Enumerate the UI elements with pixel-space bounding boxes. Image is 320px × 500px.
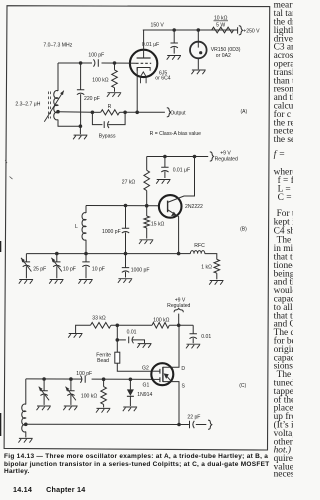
wire R to node xyxy=(120,111,126,113)
wire tank to G1 xyxy=(26,378,153,381)
svg-text:G2: G2 xyxy=(142,365,149,371)
svg-text:or 0A2: or 0A2 xyxy=(216,53,231,59)
ground below 25pF xyxy=(19,280,33,284)
wire to 1N914 xyxy=(129,379,131,389)
svg-text:15 kΩ: 15 kΩ xyxy=(151,222,165,228)
wire 27k to base node xyxy=(146,191,148,206)
node rail/VR tube junction xyxy=(197,28,201,32)
node trimmer1 C xyxy=(42,377,46,381)
node coil bottom xyxy=(84,252,88,256)
wire +9V terminal C xyxy=(178,314,180,326)
MOSFET arrow tail xyxy=(167,377,171,381)
svg-text:S: S xyxy=(182,384,186,390)
wire bottom rail to 1000pF-2 xyxy=(125,254,127,268)
MOSFET substrate arrow xyxy=(164,373,169,379)
stray pen marks xyxy=(5,160,12,179)
ground 100k lower C xyxy=(96,408,110,412)
svg-text:100 kΩ: 100 kΩ xyxy=(153,317,169,323)
node R right xyxy=(123,111,127,115)
node trimmer2 C xyxy=(69,377,73,381)
wire base rail to coil L xyxy=(85,206,87,214)
ground coil C xyxy=(18,438,32,442)
svg-text:(B): (B) xyxy=(240,227,247,233)
capacitor 0.01uF plate bypass xyxy=(171,43,178,48)
wire base rail to 1000pF-1 xyxy=(125,206,127,229)
wire coil L to bottom rail xyxy=(85,240,87,254)
ground 1N914 xyxy=(123,407,137,411)
ground below 10pF trimmer xyxy=(49,280,63,284)
capacitor 100pF grid xyxy=(94,59,99,66)
wire 0.01 to ground B xyxy=(164,172,166,179)
ferrite bead xyxy=(115,352,120,363)
wire 0.01 left to ground xyxy=(132,340,145,343)
ground below 10pF fixed xyxy=(78,280,92,284)
connector brace output C xyxy=(208,420,212,429)
wire 100pF to tube grid xyxy=(102,62,137,64)
wire bypass loop left xyxy=(92,112,102,124)
svg-text:Regulated: Regulated xyxy=(167,303,190,309)
node 1N914 C xyxy=(129,378,133,382)
wire G1 line down to coil C xyxy=(25,379,27,405)
diode 1N914 triangle xyxy=(127,389,134,396)
node rail/collector B xyxy=(193,155,197,159)
wire to 0.01 left C xyxy=(117,339,126,341)
node emitter junction xyxy=(177,252,181,256)
wire 1000pF-2 to ground xyxy=(125,272,127,278)
ground below 0.01 B xyxy=(156,180,170,184)
wire tube plate lead xyxy=(143,30,145,58)
node 1000pF junction xyxy=(124,252,128,256)
capacitor 10pF fixed xyxy=(82,262,89,267)
capacitor 100pF C xyxy=(80,375,85,382)
svg-text:7.0–7.3 MHz: 7.0–7.3 MHz xyxy=(43,43,72,49)
capacitor 220pF tank xyxy=(77,90,84,95)
wire 0.01 right to ground xyxy=(192,338,194,343)
wire G2 into gate xyxy=(152,370,160,372)
svg-text:or 6C4: or 6C4 xyxy=(155,75,170,81)
capacitor 22pF output xyxy=(190,421,195,428)
wire bypass loop right xyxy=(108,112,125,124)
inductor tank C tapped xyxy=(22,404,26,432)
svg-text:25 pF: 25 pF xyxy=(33,267,46,273)
arrow 25pF variable xyxy=(21,258,31,272)
wire to 100k lower C xyxy=(103,379,105,386)
resistor 100k C top xyxy=(152,323,169,329)
svg-text:(C): (C) xyxy=(239,383,246,389)
svg-text:the series: the series xyxy=(274,135,293,145)
wire to R xyxy=(92,111,100,113)
capacitor 25pF variable xyxy=(23,262,30,267)
diode 1N914 bar xyxy=(127,395,134,397)
wire 100k to ground xyxy=(114,88,116,92)
wire 1k to ground xyxy=(216,273,218,279)
ground below 100k xyxy=(107,93,121,97)
node coil tap xyxy=(56,110,60,114)
ground below 15k xyxy=(139,240,153,244)
wire 22pF to output brace xyxy=(196,424,207,426)
terminal tick +250V xyxy=(237,27,239,34)
wire collector to rail xyxy=(168,157,195,203)
wire ground to 33k xyxy=(76,325,91,333)
svg-text:2.3–2.7 μH: 2.3–2.7 μH xyxy=(15,102,40,108)
node coil tap C xyxy=(24,423,28,427)
wire 100k to cap corner xyxy=(169,324,193,326)
svg-text:f =: f = xyxy=(274,149,286,160)
arrow 10pF trimmer xyxy=(51,258,61,272)
wire to 25pF xyxy=(25,254,27,262)
svg-text:10 kΩ: 10 kΩ xyxy=(214,15,228,21)
node grid wire / 100k xyxy=(113,61,117,65)
wire tank top to 100pF xyxy=(58,62,92,64)
svg-text:hot.): hot.) xyxy=(274,445,291,456)
svg-text:(A): (A) xyxy=(240,109,247,115)
svg-text:100 pF: 100 pF xyxy=(76,371,92,377)
tube grid dashed xyxy=(136,62,151,64)
svg-text:0.01 μF: 0.01 μF xyxy=(173,167,190,173)
ground 0.01 left C xyxy=(137,344,151,348)
wire 220pF to bottom rail xyxy=(80,94,82,126)
tube 6J5 envelope xyxy=(130,50,157,77)
transistor emitter arrow xyxy=(171,212,177,217)
wire to trimmer1 C xyxy=(43,379,45,391)
svg-text:L: L xyxy=(75,224,78,230)
wire to output xyxy=(125,111,165,113)
ground 33k left xyxy=(68,334,82,338)
VR tube anode xyxy=(197,42,199,48)
svg-text:150 V: 150 V xyxy=(151,23,165,29)
svg-text:100 pF: 100 pF xyxy=(88,53,104,59)
svg-text:0.01: 0.01 xyxy=(127,330,137,336)
node base wire/1000pF xyxy=(124,204,128,208)
ground below VR tube xyxy=(191,70,205,74)
capacitor 10pF trimmer xyxy=(53,262,60,267)
tube cathode bracket xyxy=(137,68,150,71)
wire 33k to 100k xyxy=(111,324,152,326)
wire 100k lower to ground xyxy=(103,404,105,407)
wire VR tube to ground xyxy=(197,58,199,69)
svg-text:1000 pF: 1000 pF xyxy=(131,267,150,273)
wire rail to 27k xyxy=(146,157,148,171)
wire coil C to ground xyxy=(25,432,27,438)
tube plate bar xyxy=(137,57,151,59)
svg-text:Regulated: Regulated xyxy=(215,157,238,163)
node grid wire / 220pF xyxy=(79,61,83,65)
resistor 10k 5W xyxy=(212,27,234,33)
wire drain to rail C xyxy=(163,325,179,367)
node +9V / drain junction C xyxy=(177,324,181,328)
svg-text:33 kΩ: 33 kΩ xyxy=(92,315,106,321)
node base wire/27k/15k xyxy=(145,204,149,208)
wire to trimmer2 C xyxy=(70,379,72,391)
svg-text:10 pF: 10 pF xyxy=(63,267,76,273)
connector brace +250V xyxy=(239,26,243,35)
figure border frame xyxy=(4,6,270,450)
svg-text:RFC: RFC xyxy=(194,243,205,249)
ground trimmer1 C xyxy=(37,406,51,410)
ground below 1k xyxy=(209,281,223,285)
transistor base bar xyxy=(167,201,169,213)
wire rail to 0.01uF cap xyxy=(173,30,175,43)
node cathode junction xyxy=(135,111,139,115)
node R left xyxy=(91,111,95,115)
wire to 10pF trimmer xyxy=(56,254,58,262)
wire 10pF fixed to ground xyxy=(85,266,87,278)
connector brace +9V C xyxy=(174,308,183,312)
ground below 0.01uF xyxy=(167,56,181,60)
resistor 15k xyxy=(144,216,150,228)
svg-text:0.01 μF: 0.01 μF xyxy=(142,42,159,48)
VR tube gas dot xyxy=(199,51,202,54)
svg-text:necessar: necessar xyxy=(274,470,293,480)
wire +9V rail B xyxy=(147,156,209,158)
wire tank to base xyxy=(86,205,159,207)
wire tank top left leg xyxy=(57,63,59,91)
inductor L tank B xyxy=(82,213,86,240)
wire coil tap to source C xyxy=(26,423,179,425)
capacitor 0.01 right C xyxy=(190,334,197,339)
resistor 100k lower C xyxy=(101,387,107,405)
wire rail to 0.01 B xyxy=(164,157,166,168)
svg-text:R = Class-A bias value: R = Class-A bias value xyxy=(150,131,202,137)
wire grid node down to 220pF xyxy=(80,63,82,90)
node 10pF trimmer xyxy=(55,252,59,256)
node tank bottom / ground xyxy=(79,124,83,128)
wire emitter/tank bottom rail B xyxy=(26,253,178,255)
wire G1 into gate xyxy=(153,378,160,380)
wire grid node to 100k xyxy=(114,63,116,70)
wire RFC to 1k xyxy=(205,254,217,260)
resistor 1k xyxy=(214,259,220,273)
svg-text:R: R xyxy=(108,104,112,110)
wire source down C xyxy=(163,382,179,425)
capacitor 0.01uF B xyxy=(161,167,168,172)
ground trimmer2 C xyxy=(63,406,77,410)
svg-text:100 kΩ: 100 kΩ xyxy=(92,78,108,84)
wire 25pF to ground xyxy=(25,266,27,278)
svg-text:Output: Output xyxy=(170,110,186,116)
wire to 22pF xyxy=(179,424,189,426)
resistor 27k xyxy=(144,170,150,190)
arrow trimmer2 C xyxy=(66,387,76,401)
svg-text:27 kΩ: 27 kΩ xyxy=(122,180,136,186)
node rail/0.01 B xyxy=(163,155,167,159)
capacitor bypass xyxy=(104,121,109,128)
MOSFET gate bars xyxy=(159,369,161,382)
VR tube VR150 envelope xyxy=(190,42,207,59)
svg-text:Bypass: Bypass xyxy=(99,133,116,139)
MOSFET channel bar xyxy=(162,367,164,382)
svg-text:5 W: 5 W xyxy=(216,22,225,28)
ground tank bottom xyxy=(73,135,87,139)
inductor 2.3-2.7uH tapped coil xyxy=(54,91,58,120)
wire tank bottom to ground xyxy=(79,126,81,134)
svg-text:Bead: Bead xyxy=(97,358,109,364)
node 33k/100k/bead junction xyxy=(116,324,120,328)
wire cathode lead xyxy=(136,68,138,113)
svg-text:1N914: 1N914 xyxy=(137,392,152,398)
svg-text:10 pF: 10 pF xyxy=(92,267,105,273)
wire bead to G2 xyxy=(117,363,152,371)
capacitor 1000pF feedback 2 xyxy=(122,268,129,273)
transistor Q 2N2222 envelope xyxy=(159,195,182,218)
wire coil bottom to ground node xyxy=(58,120,80,127)
scan edge artifacts xyxy=(0,241,1,436)
node bead/0.01 branch xyxy=(116,338,120,342)
resistor R cathode bias xyxy=(101,110,120,115)
wire rail to VR tube xyxy=(197,30,199,42)
wire trimmer1 to ground xyxy=(43,395,45,405)
MOSFET dual-gate envelope xyxy=(151,363,173,385)
inductor adjustable core lines xyxy=(49,92,51,119)
node 100k lower C xyxy=(102,377,106,381)
wire 1000pF-1 to bottom rail xyxy=(125,233,127,254)
node source/output C xyxy=(177,423,181,427)
wire 15k to ground xyxy=(146,228,148,239)
wire emitter node to RFC xyxy=(179,253,191,255)
capacitor trimmer1 C xyxy=(40,391,47,396)
wire trimmer2 to ground xyxy=(70,395,72,405)
resistor 100k grid leak xyxy=(112,70,118,88)
wire 1N914 to ground xyxy=(129,396,131,406)
wire to 10pF fixed xyxy=(85,254,87,262)
wire corner to 0.01 right C xyxy=(192,325,194,334)
svg-text:D: D xyxy=(181,366,185,372)
svg-text:1000 pF: 1000 pF xyxy=(102,229,121,235)
wire emitter down xyxy=(168,210,179,254)
connector brace +9V B xyxy=(210,152,214,161)
svg-text:22 pF: 22 pF xyxy=(187,415,200,421)
capacitor 1000pF feedback 1 xyxy=(122,228,129,233)
svg-text:2N2222: 2N2222 xyxy=(185,204,203,210)
wire 0.01uF to ground xyxy=(173,47,175,53)
ground 0.01 right C xyxy=(186,344,200,348)
ground below 1000pF-2 xyxy=(118,279,132,283)
svg-text:1 kΩ: 1 kΩ xyxy=(201,265,212,271)
svg-text:100 kΩ: 100 kΩ xyxy=(81,393,97,399)
svg-text:C = cap: C = cap xyxy=(278,193,293,203)
inductor RFC xyxy=(190,251,204,254)
resistor 33k xyxy=(91,323,111,329)
svg-text:+250 V: +250 V xyxy=(243,29,260,35)
node rail/0.01uF junction xyxy=(172,28,176,32)
wire coil tap to R xyxy=(58,111,92,114)
capacitor 0.01 left C xyxy=(129,337,134,344)
svg-text:G1: G1 xyxy=(143,382,150,388)
tube heater filament xyxy=(141,72,147,83)
svg-text:220 pF: 220 pF xyxy=(84,96,100,102)
wire 10pF trimmer to ground xyxy=(56,266,58,278)
wire base node to 15k xyxy=(146,206,148,216)
wire resistor to +250V terminal xyxy=(234,29,238,31)
wire plate supply rail 150V xyxy=(143,29,238,31)
arrow trimmer1 C xyxy=(39,387,49,401)
wire junction to ferrite bead xyxy=(116,325,118,352)
inductor adjust arrow xyxy=(44,91,64,122)
connector brace output A xyxy=(167,108,171,117)
capacitor trimmer2 C xyxy=(67,391,74,396)
svg-text:0.01: 0.01 xyxy=(201,334,211,340)
